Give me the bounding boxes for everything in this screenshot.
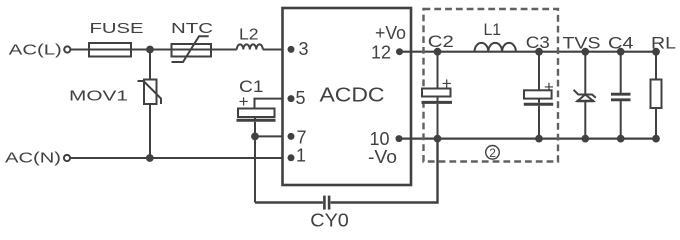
pin 1	[288, 154, 295, 161]
node junction C4 bottom	[617, 135, 625, 143]
wire AC(N) to pin1	[70, 157, 291, 159]
capacitor C4	[611, 93, 631, 96]
svg-text:AC(L): AC(L)	[9, 41, 62, 58]
wire C1 to junction	[254, 122, 256, 137]
node junction fuse/MOV1	[146, 46, 154, 54]
wire MOV1 to AC(N) line	[149, 104, 151, 158]
svg-text:AC(N): AC(N)	[5, 150, 61, 167]
wire junction to MOV1	[149, 50, 151, 80]
varistor MOV1	[144, 80, 157, 105]
svg-text:MOV1: MOV1	[69, 88, 128, 105]
svg-text:3: 3	[299, 39, 309, 59]
wire CY0 bottom rail	[255, 201, 323, 203]
wire C1 junction down to CY0 rail	[254, 136, 256, 202]
svg-text:1: 1	[296, 145, 306, 165]
wire C3 plate stub	[538, 99, 540, 103]
svg-text:-Vo: -Vo	[368, 147, 397, 167]
wire C2 bottom through rail to CY0	[437, 104, 439, 203]
svg-text:L1: L1	[484, 20, 502, 39]
wire C1 to pin5	[255, 99, 292, 109]
svg-text:C2: C2	[428, 32, 454, 51]
svg-text:+Vo: +Vo	[375, 23, 406, 43]
capacitor CY0	[323, 196, 326, 210]
wire -Vo rail	[399, 138, 656, 140]
dashed output filter box	[424, 9, 559, 162]
wire RL bottom	[655, 108, 657, 139]
wire C1 plate stub	[254, 117, 256, 119]
node junction C1/pin7	[251, 133, 259, 141]
svg-text:2: 2	[489, 146, 496, 160]
wire TVS bottom	[584, 101, 586, 139]
node junction C2 top	[434, 48, 442, 56]
svg-text:CY0: CY0	[310, 211, 349, 230]
inductor L2	[237, 44, 263, 49]
svg-text:5: 5	[296, 88, 306, 108]
pin 3	[288, 46, 295, 53]
wire C3 top	[538, 52, 540, 91]
wire C4 bottom	[620, 100, 622, 139]
capacitor C2	[422, 89, 451, 97]
node junction C4 top	[617, 48, 625, 56]
capacitor C1	[238, 109, 275, 118]
wire CY0 to -Vo rail	[331, 139, 438, 203]
svg-text:L2: L2	[239, 27, 259, 44]
wire +Vo rail	[400, 51, 657, 53]
svg-text:ACDC: ACDC	[320, 84, 385, 106]
wire AC(L) to L2	[71, 49, 237, 51]
pin 7	[288, 133, 295, 140]
terminal AC(L)	[64, 46, 70, 52]
node junction TVS top	[581, 48, 589, 56]
wire C2 plate stub	[437, 97, 439, 102]
resistor RL	[651, 80, 662, 109]
op-amp ACDC block	[283, 8, 412, 185]
wire RL top	[655, 52, 657, 80]
pin 5	[288, 95, 295, 102]
node junction MOV1/AC(N)	[146, 154, 154, 162]
thermistor NTC	[172, 44, 212, 57]
svg-text:FUSE: FUSE	[90, 20, 144, 37]
node junction RL bottom	[652, 135, 660, 143]
node junction TVS bottom	[581, 135, 589, 143]
inductor L1	[475, 43, 516, 52]
svg-text:NTC: NTC	[171, 20, 213, 37]
wire TVS top	[584, 52, 586, 95]
node junction RL top	[652, 48, 660, 56]
terminal AC(N)	[64, 155, 70, 161]
wire L2 to pin3	[263, 49, 291, 51]
svg-text:12: 12	[371, 42, 391, 62]
fuse FUSE	[89, 43, 131, 57]
wire C3 bottom	[538, 106, 540, 139]
diode TVS	[578, 95, 594, 102]
node junction C3 bottom	[535, 135, 543, 143]
capacitor C3	[524, 90, 552, 98]
node junction C3 top	[535, 48, 543, 56]
wire C2 top	[437, 52, 439, 89]
wire C4 top	[620, 52, 622, 94]
circled 2 label	[486, 146, 500, 160]
wire junction to pin7	[255, 135, 291, 137]
node junction C2 bottom	[434, 135, 442, 143]
svg-text:TVS: TVS	[563, 33, 601, 52]
